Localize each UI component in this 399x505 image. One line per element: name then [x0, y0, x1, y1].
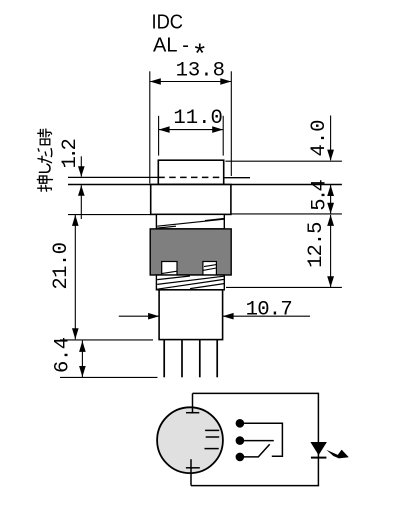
- lamp body (bottom view circle): [157, 407, 223, 473]
- dimension 12.5 line and arrows: [330, 215, 332, 287]
- svg-text:10.7: 10.7: [246, 299, 292, 322]
- thread hatch lower: [157, 276, 224, 289]
- dimension line 13.8: [150, 71, 232, 183]
- extension line pin ends: [60, 376, 158, 378]
- svg-text:12.5: 12.5: [305, 222, 328, 268]
- switch body: [159, 290, 223, 340]
- svg-text:21.0: 21.0: [50, 242, 73, 289]
- wire top: [193, 392, 319, 394]
- kanji 時: [38, 129, 52, 145]
- dimension 5.4 line and arrows: [330, 185, 332, 214]
- svg-text:11.0: 11.0: [173, 107, 222, 130]
- extension line bezel bottom right: [231, 213, 342, 215]
- svg-text:1.2: 1.2: [59, 140, 82, 169]
- dimension 1.2 arrows: [80, 156, 82, 219]
- svg-text:13.8: 13.8: [176, 59, 225, 82]
- pin 3: [199, 340, 201, 378]
- svg-text:6.4: 6.4: [52, 337, 75, 373]
- LED D1 triangle: [310, 442, 327, 455]
- LED light emission bolt: [326, 450, 348, 459]
- lamp terminal top: [192, 393, 194, 413]
- switch wire from contact 2: [240, 440, 274, 442]
- arrowheads 13.8: [150, 78, 161, 85]
- svg-text:4.0: 4.0: [308, 119, 331, 156]
- wire right: [317, 393, 319, 486]
- dimension line 11.0: [159, 116, 224, 156]
- bezel flange: [151, 185, 231, 215]
- switch moving arm from contact 3: [240, 444, 270, 457]
- pin 1: [163, 340, 165, 378]
- dimension 10.7 arrows: [119, 315, 310, 317]
- dimension 4.0 leader and arrow: [330, 116, 332, 161]
- switch wire from contact 1: [240, 423, 283, 456]
- pin 2: [181, 340, 183, 378]
- button cap: [158, 160, 223, 184]
- dimension 21.0 line and arrows: [74, 215, 76, 339]
- kanji た: [38, 149, 52, 163]
- dimension 6.4 line and arrows: [81, 341, 83, 377]
- thread hatch upper: [157, 219, 224, 229]
- extension line body bottom left: [60, 339, 153, 341]
- thread line in left slot: [162, 271, 177, 273]
- hex nut (gray): [150, 229, 231, 275]
- LED cathode bar: [311, 457, 327, 459]
- nut slot right: [203, 262, 217, 276]
- pin 4: [216, 340, 218, 378]
- nut slot left: [162, 262, 177, 276]
- upper threaded bushing: [156, 214, 224, 229]
- thread lines in right slot: [203, 268, 217, 270]
- extension line 12.5 bottom: [226, 286, 342, 288]
- switch contact dot 1: [236, 419, 245, 428]
- wire bottom: [191, 485, 319, 487]
- svg-text:IDC: IDC: [152, 11, 184, 33]
- switch contact dot 3: [236, 453, 245, 462]
- switch contact dot 2: [236, 436, 245, 445]
- extension line bezel bottom left: [68, 214, 151, 216]
- lamp pin marks: [205, 430, 220, 448]
- lamp terminal bottom: [190, 459, 192, 485]
- panel surface line (full width): [68, 184, 342, 186]
- kanji 押: [37, 176, 52, 191]
- text when pressed (oshita toki) drawn kanji, rotated: [37, 129, 52, 191]
- lower threaded bushing: [156, 275, 224, 290]
- dimension 4.0 right: extension line at cap top: [225, 160, 342, 162]
- panel line right upper: [224, 177, 250, 179]
- kanji し: [39, 164, 50, 172]
- arrowheads 11.0: [159, 126, 170, 133]
- hidden panel line (dashed, behind cap): [158, 176, 223, 178]
- panel line left upper: [68, 176, 158, 178]
